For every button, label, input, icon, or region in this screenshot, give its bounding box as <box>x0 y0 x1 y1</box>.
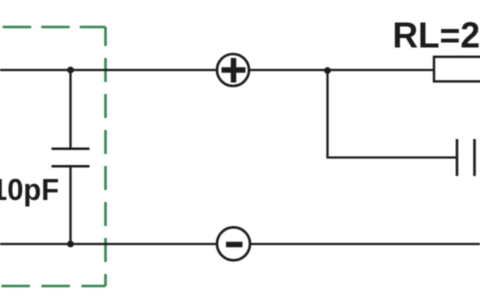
svg-text:RL=2: RL=2 <box>393 15 480 56</box>
resistor RL body <box>434 57 480 82</box>
terminal minus circle <box>217 227 250 260</box>
node A top-left junction <box>67 67 74 74</box>
dashed box (green, left edge off-canvas) <box>0 27 106 286</box>
wire bottom <box>0 243 480 245</box>
wire cap left vertical top <box>69 70 71 149</box>
node B bottom-left junction <box>67 241 74 248</box>
terminal plus circle <box>217 54 249 86</box>
node C mid junction <box>324 67 331 74</box>
wire cap left vertical bottom <box>69 166 71 244</box>
capacitor C2 plates <box>456 139 459 176</box>
wire top <box>0 69 434 71</box>
svg-text:10pF: 10pF <box>0 172 59 207</box>
wire node C vertical <box>328 70 458 158</box>
capacitor C1 plates <box>52 147 90 150</box>
